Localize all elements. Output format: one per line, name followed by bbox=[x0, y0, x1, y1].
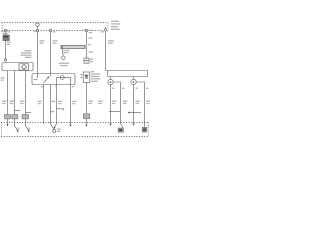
inline connector on wire bbox=[4, 59, 6, 61]
wire E below switch box bbox=[50, 85, 52, 123]
wire pin2 color label bbox=[89, 101, 94, 104]
wire pin2 to module bbox=[86, 119, 88, 123]
wire F color label bbox=[58, 101, 62, 104]
diamond symbol bbox=[21, 64, 26, 69]
wire D color label bbox=[38, 101, 42, 104]
wire H color label bbox=[98, 101, 103, 104]
wire pinB corner bbox=[106, 70, 148, 72]
switch blade wire F bbox=[54, 123, 57, 129]
wire pin2 below diode bbox=[86, 82, 88, 113]
splice stub on wire C bbox=[26, 112, 32, 114]
wire K color label bbox=[136, 101, 140, 104]
switch blade S1 bbox=[44, 76, 50, 82]
connector C100 block bbox=[3, 35, 9, 41]
diode symbol bbox=[85, 75, 88, 78]
connector block below wire L bbox=[142, 127, 147, 132]
switch module dashed right edge bbox=[147, 123, 149, 137]
blower circle 2 bbox=[131, 79, 136, 84]
blower circle 1 bbox=[108, 79, 113, 84]
wire pin1 to horn box bbox=[5, 41, 7, 59]
bar drop wire bbox=[62, 49, 63, 56]
switch contact stub bbox=[50, 74, 52, 77]
blower connector stub 2 bbox=[133, 77, 135, 80]
wire from pin2 down bbox=[86, 32, 88, 46]
wire G below switch box bbox=[70, 85, 72, 123]
diode side arrows bbox=[80, 74, 82, 79]
A/C compressor clutch label bbox=[91, 71, 101, 82]
wire D below switch box bbox=[43, 85, 45, 123]
pin labels below box bbox=[55, 86, 57, 87]
fuse block dashed box bottom edge bbox=[2, 30, 104, 32]
splice stub right 2 with arrow bbox=[128, 112, 141, 114]
pin 4 connector hook bbox=[49, 29, 51, 31]
ground label bbox=[59, 63, 70, 67]
contact arrow wire G bbox=[70, 123, 72, 127]
C2 side label bbox=[90, 59, 93, 63]
fuse F1 bbox=[36, 23, 39, 29]
switch blade wire I with connector bbox=[121, 123, 124, 128]
fuse block dashed box left edge bbox=[1, 23, 3, 31]
wire from fuse F1 down bbox=[37, 32, 39, 74]
switch blade wire C bbox=[26, 123, 30, 132]
contact stub wire D bbox=[43, 123, 45, 125]
connector block on wire B bbox=[12, 115, 18, 119]
switch module dashed left edge bbox=[1, 123, 3, 137]
switch assembly box bbox=[32, 74, 75, 85]
wire pin2 continues bbox=[86, 49, 88, 58]
rail lower edge bbox=[108, 71, 148, 77]
wire A down from relay box bbox=[7, 71, 9, 115]
wire J color label bbox=[123, 101, 128, 104]
switch module dashed top edge bbox=[1, 122, 148, 124]
contact arrow pin2 wire bbox=[86, 123, 88, 127]
wire A color label bbox=[2, 101, 7, 104]
wire F below switch box bbox=[56, 85, 58, 123]
connector block on wire A bbox=[5, 115, 11, 119]
connector block below wire I bbox=[118, 128, 123, 132]
horn relay name label bbox=[21, 50, 32, 58]
blower branch 2 bbox=[136, 82, 144, 123]
contact arrow wire K bbox=[133, 123, 135, 126]
splice S2 stub bbox=[51, 111, 55, 113]
solid state sub box bbox=[19, 64, 29, 70]
switch module dashed bottom edge bbox=[1, 136, 148, 138]
pin labels on pin2 wire bbox=[88, 37, 93, 52]
wire label pin4 bbox=[53, 40, 58, 44]
fuse block dashed box right edge bbox=[107, 23, 109, 31]
contact arrow wire H bbox=[110, 123, 112, 126]
wire B color label bbox=[10, 101, 15, 104]
pin 1 connector hook bbox=[4, 29, 6, 31]
wire L color label bbox=[146, 101, 150, 104]
wire label below C100 bbox=[7, 42, 11, 46]
wire label pinB bbox=[108, 40, 114, 44]
fuse block dashed box top edge bbox=[2, 22, 109, 24]
connector block on wire C bbox=[22, 115, 29, 119]
blower wire 1 down bbox=[110, 85, 112, 123]
wire E color label bbox=[52, 101, 56, 102]
wire from pinB down bbox=[105, 32, 107, 71]
wire label F1 bbox=[40, 40, 45, 44]
wire I color label bbox=[112, 101, 116, 104]
switch box internal wires down bbox=[57, 78, 71, 85]
pin labels below circles bbox=[112, 88, 148, 89]
fuse block name label bbox=[111, 21, 121, 30]
bar label bbox=[64, 50, 70, 53]
wire A size label bbox=[1, 77, 5, 81]
wires A B C to module bbox=[8, 119, 26, 123]
wire from pin4 down bbox=[50, 32, 52, 74]
switch blade wire B bbox=[15, 123, 19, 132]
blower wire 2 down bbox=[133, 85, 135, 123]
connector block on pin2 wire bbox=[83, 114, 89, 119]
pin number labels row bbox=[1, 30, 104, 34]
wire B down from relay box bbox=[14, 71, 16, 115]
splice S3 stub bbox=[57, 109, 64, 110]
wire G color label bbox=[72, 101, 76, 104]
horn relay box bbox=[2, 63, 33, 71]
switch blade wire L with connector bbox=[144, 123, 146, 128]
splice stub right 1 bbox=[109, 111, 121, 113]
label above C100 bbox=[3, 33, 8, 34]
splice stub on wire B bbox=[15, 110, 21, 112]
pin 10 connector hook bbox=[36, 29, 38, 31]
lamp circle in switch box bbox=[57, 76, 71, 80]
A/C diode box bbox=[83, 72, 90, 82]
wire C down from relay box bbox=[25, 71, 27, 115]
wire C color label bbox=[20, 101, 25, 104]
blower connector stub 1 bbox=[110, 77, 112, 80]
blower branch 1 bbox=[113, 82, 120, 123]
pin 2 connector hook bbox=[85, 29, 87, 31]
ground ring terminal G1 bbox=[62, 56, 66, 60]
wire from pin1 down bbox=[5, 32, 7, 36]
inline connector C2 on pin2 wire bbox=[84, 58, 89, 63]
contact arrow wire A bbox=[7, 123, 9, 127]
pin B terminal triangle bbox=[104, 28, 107, 31]
wire F1 into switch box bbox=[34, 74, 38, 80]
switch blade wire E with lamp bbox=[51, 123, 56, 133]
ground strap bar bbox=[61, 45, 87, 48]
lamp label bbox=[57, 128, 61, 132]
